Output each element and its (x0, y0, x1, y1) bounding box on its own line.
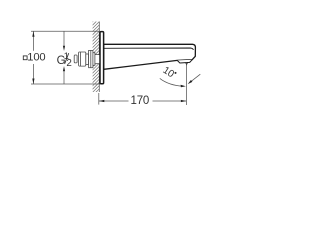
label square-100 (23, 56, 27, 60)
svg-text:2: 2 (66, 58, 71, 69)
backnut (89, 50, 93, 67)
water line / ext 170 right (185, 63, 187, 105)
wall face line (98, 22, 100, 93)
dim line G1/2 (63, 31, 65, 84)
spout top inner line (104, 48, 194, 50)
dim line 170 (99, 100, 187, 102)
svg-text:170: 170 (131, 95, 150, 107)
spout body (104, 44, 196, 69)
pipe through wall (95, 55, 100, 64)
dim ext line 170 left (98, 93, 100, 105)
dim ext line top (31, 30, 100, 32)
svg-text:10: 10 (161, 65, 177, 80)
wall hatch (92, 14, 101, 100)
collar (86, 54, 89, 65)
angle arrow right (191, 74, 201, 82)
aerator outlet (177, 60, 192, 63)
flange (escutcheon) (100, 32, 104, 84)
collar 2 (93, 53, 95, 66)
dim ext line bottom (31, 83, 100, 85)
angle arc (160, 78, 184, 86)
svg-text:100: 100 (27, 52, 45, 64)
dim line 100 (32, 31, 34, 84)
union body (79, 52, 86, 66)
pipe stub G1/2 (74, 55, 77, 63)
aerator drip (185, 63, 187, 66)
